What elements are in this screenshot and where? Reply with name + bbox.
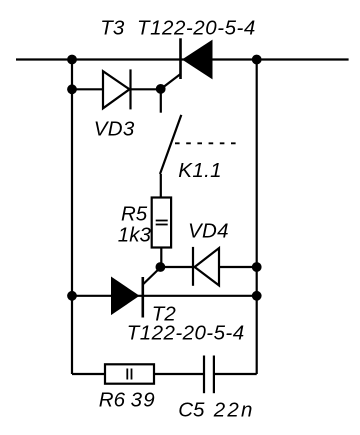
thyristor T3 <box>161 38 213 89</box>
node T2 right junction <box>252 291 262 301</box>
svg-text:K1.1: K1.1 <box>178 159 222 182</box>
svg-text:VD3: VD3 <box>94 118 135 141</box>
diode VD3 <box>103 69 131 109</box>
thyristor T2 <box>111 268 160 318</box>
svg-text:C5: C5 <box>178 398 205 421</box>
svg-text:R6: R6 <box>99 389 126 412</box>
wire R5 bottom to gate junction <box>160 248 162 268</box>
svg-text:T122-20-5-4: T122-20-5-4 <box>137 17 256 40</box>
wire top horizontal bus <box>16 58 349 60</box>
wire T2 row <box>72 295 257 297</box>
svg-text:22n: 22n <box>213 398 255 421</box>
capacitor C5 <box>204 356 214 394</box>
wire C5 to right rail <box>214 373 257 375</box>
wire right rail <box>256 60 258 375</box>
node T3 gate junction <box>156 84 166 94</box>
node left VD3 junction <box>67 84 77 94</box>
node top-left junction <box>67 55 77 65</box>
resistor R5 <box>152 198 171 248</box>
svg-text:VD4: VD4 <box>188 220 229 243</box>
svg-text:39: 39 <box>131 389 156 412</box>
node T2 gate junction <box>156 262 166 272</box>
wire VD4 row <box>160 266 256 268</box>
svg-text:R5: R5 <box>121 203 148 226</box>
node VD4 right junction <box>252 262 262 272</box>
wire R6 to C5 <box>154 373 204 375</box>
relay contact K1.1 <box>160 89 238 197</box>
diode VD4 <box>193 247 219 286</box>
svg-text:T122-20-5-4: T122-20-5-4 <box>127 322 245 345</box>
wire VD3 row <box>72 88 161 90</box>
wire left rail <box>71 60 73 375</box>
resistor R6 <box>105 364 154 383</box>
node top-right junction <box>252 55 262 65</box>
svg-text:1k3: 1k3 <box>118 224 152 247</box>
node T2 left junction <box>67 291 77 301</box>
wire bottom bus <box>72 373 105 375</box>
svg-text:T3: T3 <box>100 17 125 40</box>
